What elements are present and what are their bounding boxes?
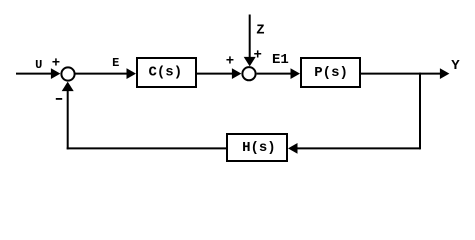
svg-text:E1: E1 [272, 52, 289, 68]
block H(s) [227, 134, 287, 161]
arrowhead into S2 from left [232, 68, 242, 79]
svg-text:H(s): H(s) [242, 140, 276, 156]
arrowhead at output Y [440, 68, 450, 79]
wire: S2 to P(s) [257, 73, 292, 75]
wire: input U line [16, 73, 52, 75]
summing junction S2 [242, 67, 255, 80]
summing junction S1 [61, 67, 74, 80]
block C(s) [137, 58, 196, 87]
arrowhead into P(s) [291, 68, 301, 79]
svg-text:P(s): P(s) [314, 65, 348, 81]
wire: feedback vertical rise at left [67, 90, 69, 149]
wire: feedback bottom line into H(s) [297, 147, 421, 149]
svg-text:U: U [35, 58, 42, 72]
wire: H(s) output to left [67, 147, 226, 149]
svg-text:E: E [112, 56, 119, 70]
wire: S1 to C(s) [75, 73, 127, 75]
svg-text:Y: Y [451, 58, 460, 74]
wire: Z input vertical [249, 15, 251, 59]
svg-text:+: + [226, 53, 234, 69]
wire: C(s) to summing junction S2 [197, 73, 233, 75]
arrowhead of Z into S2 [244, 57, 256, 67]
minus sign at S1 lower input [56, 98, 62, 100]
svg-text:C(s): C(s) [148, 65, 182, 81]
arrowhead into summing junction S1 [51, 68, 61, 79]
arrowhead into S1 from below [62, 82, 74, 92]
wire: feedback vertical drop at right [419, 73, 421, 150]
arrowhead into H(s) [288, 143, 298, 154]
svg-text:+: + [253, 47, 261, 63]
wire: P(s) to output Y [361, 73, 441, 75]
svg-text:Z: Z [256, 23, 264, 39]
block P(s) [301, 58, 360, 87]
arrowhead into C(s) [127, 68, 137, 79]
svg-text:+: + [52, 56, 60, 72]
